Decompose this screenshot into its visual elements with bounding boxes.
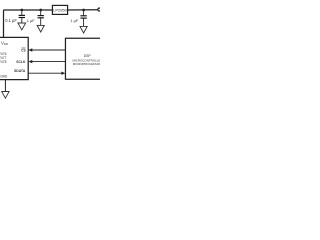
wire SDATA with arrow into DSP	[28, 72, 65, 75]
svg-text:LP2950: LP2950	[53, 8, 68, 13]
ground under C1	[18, 23, 26, 30]
svg-text:0.1 µF: 0.1 µF	[5, 18, 17, 23]
regulator U1 LP2950 box	[52, 5, 67, 14]
svg-text:1 µF: 1 µF	[27, 18, 35, 23]
svg-text:VDD: VDD	[1, 40, 9, 46]
node junction dot 3	[82, 9, 85, 12]
ground under ADC box	[2, 80, 9, 99]
wire top supply rail left segment	[4, 10, 53, 37]
svg-text:CS: CS	[21, 48, 25, 52]
capacitor C1 0.1uF	[19, 10, 25, 23]
svg-text:1 µF: 1 µF	[70, 18, 78, 23]
node junction dot 2	[39, 9, 42, 12]
ADC U2 box (AD7476/AD7477/AD7478, left edge cropped)	[0, 37, 28, 79]
wire top supply rail right segment	[68, 9, 98, 11]
wire CS with arrow into ADC	[28, 48, 65, 51]
svg-text:AD7478: AD7478	[0, 60, 7, 64]
svg-text:GND: GND	[0, 75, 8, 79]
DSP box (right edge cropped)	[65, 38, 102, 79]
svg-text:SDATA: SDATA	[14, 69, 26, 73]
capacitor C3 1uF	[80, 10, 86, 26]
capacitor C2 1uF	[38, 10, 44, 25]
supply input terminal circle	[98, 8, 101, 11]
node junction dot 1	[20, 9, 23, 12]
ground under C3	[80, 26, 87, 33]
ADC pin label CS (overline)	[21, 48, 25, 52]
wire SCLK with arrow into ADC	[28, 60, 65, 63]
svg-text:SCLK: SCLK	[16, 60, 26, 64]
ground under C2	[37, 25, 44, 32]
svg-text:MICROPROCESSOR: MICROPROCESSOR	[73, 62, 100, 66]
